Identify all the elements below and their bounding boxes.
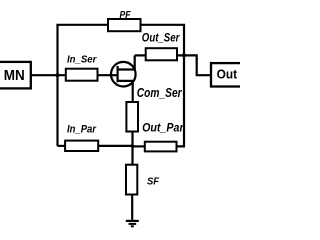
transistor gate bar [116,66,118,82]
node: out_ser junction dot [182,53,186,57]
wire: in_par row to center junction [98,145,132,147]
wire: out_ser row right with step to Out [177,55,211,75]
resistor Out_Par box [145,142,177,152]
svg-text:Out: Out [217,68,238,82]
transistor drain contact [118,55,135,69]
resistor In_Par box [65,141,98,151]
wire: top segment PF right to right loop [141,25,185,147]
resistor Com_Ser box [126,102,138,132]
block Out box [211,63,248,86]
wire: out_ser row left [135,54,146,56]
wire: center vertical com_ser to SF [131,132,133,165]
svg-text:In_Par: In_Par [67,124,97,136]
resistor SF box [126,165,137,195]
svg-text:Com_Ser: Com_Ser [137,85,183,100]
svg-text:MN: MN [4,68,25,84]
transistor source contact [118,81,133,102]
svg-text:PF: PF [120,10,132,21]
node: in_par/out_par junction dot [131,145,134,148]
resistor PF box [108,19,141,31]
node: gate junction dot [55,73,59,77]
resistor In_Ser box [66,69,98,81]
svg-text:SF: SF [147,177,160,188]
wire: gate row MN to transistor [31,74,118,76]
wire: in_par row left [58,145,66,147]
svg-text:Out_Par: Out_Par [142,121,185,135]
wire: ground stem [131,195,133,220]
svg-text:Out_Ser: Out_Ser [142,30,181,44]
block MN box [0,62,31,89]
ground symbol [126,220,139,222]
resistor Out_Ser box [146,48,177,60]
wire: out_par row left stub [132,145,145,147]
transistor U1 circle [111,62,136,87]
wire: left loop vertical [58,25,109,146]
svg-text:In_Ser: In_Ser [67,54,97,65]
